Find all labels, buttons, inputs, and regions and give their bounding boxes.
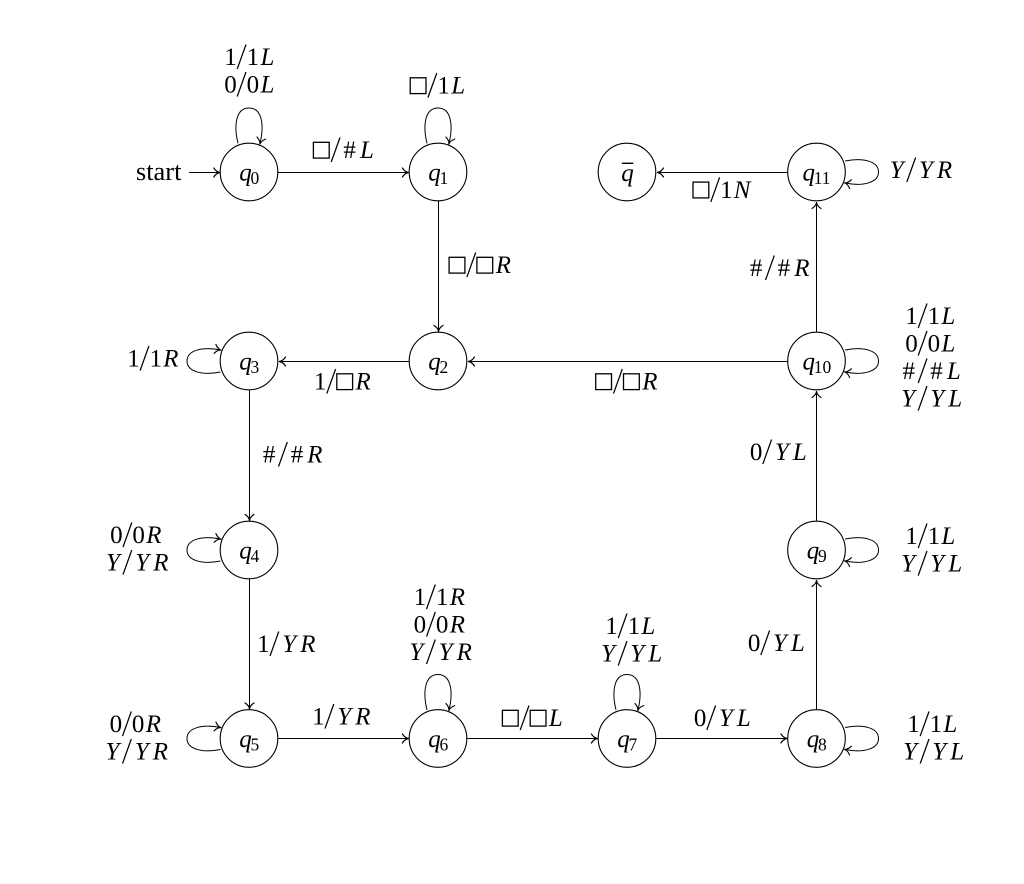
svg-text:R: R bbox=[306, 442, 322, 469]
svg-text:#: # bbox=[930, 358, 943, 385]
svg-text:R: R bbox=[449, 584, 465, 611]
svg-text:R: R bbox=[145, 711, 161, 738]
svg-text:1: 1 bbox=[905, 303, 918, 330]
svg-text:L: L bbox=[949, 739, 964, 766]
svg-text:0: 0 bbox=[132, 522, 145, 549]
svg-text:1: 1 bbox=[628, 613, 641, 640]
svg-text:R: R bbox=[145, 522, 161, 549]
svg-text:L: L bbox=[450, 73, 465, 100]
svg-text:0: 0 bbox=[750, 439, 763, 466]
svg-text:start: start bbox=[136, 156, 182, 186]
svg-text:#: # bbox=[750, 255, 763, 282]
svg-text:2: 2 bbox=[440, 357, 449, 377]
svg-text:1: 1 bbox=[605, 613, 618, 640]
svg-text:L: L bbox=[548, 705, 563, 732]
svg-text:1: 1 bbox=[436, 584, 449, 611]
svg-text:0: 0 bbox=[694, 705, 707, 732]
svg-text:1: 1 bbox=[928, 523, 941, 550]
svg-text:1: 1 bbox=[247, 44, 260, 71]
svg-text:L: L bbox=[946, 358, 961, 385]
svg-text:L: L bbox=[940, 303, 955, 330]
svg-text:1: 1 bbox=[414, 584, 427, 611]
svg-text:#: # bbox=[903, 358, 916, 385]
svg-text:L: L bbox=[359, 137, 374, 164]
svg-text:3: 3 bbox=[251, 357, 260, 377]
svg-text:1: 1 bbox=[312, 704, 325, 731]
svg-text:11: 11 bbox=[814, 168, 831, 188]
svg-text:L: L bbox=[647, 641, 662, 668]
svg-text:L: L bbox=[942, 711, 957, 738]
svg-text:7: 7 bbox=[629, 734, 638, 754]
svg-text:1: 1 bbox=[127, 346, 140, 373]
svg-text:R: R bbox=[162, 346, 178, 373]
svg-text:1: 1 bbox=[224, 44, 237, 71]
svg-text:1: 1 bbox=[440, 168, 449, 188]
svg-text:1: 1 bbox=[928, 303, 941, 330]
svg-text:8: 8 bbox=[818, 734, 827, 754]
svg-text:4: 4 bbox=[251, 546, 260, 566]
svg-text:L: L bbox=[790, 630, 805, 657]
svg-text:L: L bbox=[260, 44, 275, 71]
svg-text:R: R bbox=[449, 612, 465, 639]
svg-text:0: 0 bbox=[132, 711, 145, 738]
svg-text:1: 1 bbox=[257, 631, 270, 658]
svg-text:0: 0 bbox=[928, 331, 941, 358]
svg-text:1: 1 bbox=[930, 711, 943, 738]
svg-text:R: R bbox=[152, 550, 168, 577]
svg-text:1: 1 bbox=[437, 73, 450, 100]
svg-text:5: 5 bbox=[251, 734, 260, 754]
svg-text:R: R bbox=[456, 639, 472, 666]
svg-text:6: 6 bbox=[440, 734, 449, 754]
svg-text:0: 0 bbox=[251, 168, 260, 188]
svg-text:1: 1 bbox=[314, 369, 327, 396]
svg-text:R: R bbox=[355, 369, 371, 396]
svg-text:1: 1 bbox=[720, 177, 733, 204]
svg-text:L: L bbox=[736, 705, 751, 732]
svg-text:0: 0 bbox=[414, 612, 427, 639]
svg-text:R: R bbox=[641, 369, 657, 396]
svg-text:L: L bbox=[947, 551, 962, 578]
svg-text:R: R bbox=[495, 252, 511, 279]
svg-text:L: L bbox=[947, 386, 962, 413]
svg-text:R: R bbox=[936, 157, 952, 184]
svg-text:R: R bbox=[793, 255, 809, 282]
svg-text:R: R bbox=[152, 739, 168, 766]
svg-text:L: L bbox=[260, 72, 275, 99]
svg-text:0: 0 bbox=[247, 72, 260, 99]
svg-text:1: 1 bbox=[150, 346, 163, 373]
svg-text:q: q bbox=[621, 160, 634, 187]
svg-text:0: 0 bbox=[905, 331, 918, 358]
svg-text:#: # bbox=[343, 137, 356, 164]
svg-text:0: 0 bbox=[436, 612, 449, 639]
svg-text:0: 0 bbox=[110, 711, 123, 738]
svg-text:#: # bbox=[778, 255, 791, 282]
svg-text:L: L bbox=[640, 613, 655, 640]
svg-text:R: R bbox=[299, 631, 315, 658]
svg-text:#: # bbox=[291, 442, 304, 469]
svg-text:10: 10 bbox=[814, 357, 832, 377]
svg-text:0: 0 bbox=[110, 522, 123, 549]
svg-text:#: # bbox=[263, 442, 276, 469]
svg-text:0: 0 bbox=[748, 630, 761, 657]
svg-text:L: L bbox=[792, 439, 807, 466]
svg-text:L: L bbox=[940, 523, 955, 550]
svg-text:L: L bbox=[940, 331, 955, 358]
svg-text:9: 9 bbox=[818, 546, 827, 566]
svg-text:0: 0 bbox=[224, 72, 237, 99]
svg-text:N: N bbox=[733, 177, 752, 204]
svg-text:1: 1 bbox=[907, 711, 920, 738]
svg-text:R: R bbox=[354, 704, 370, 731]
svg-text:1: 1 bbox=[905, 523, 918, 550]
